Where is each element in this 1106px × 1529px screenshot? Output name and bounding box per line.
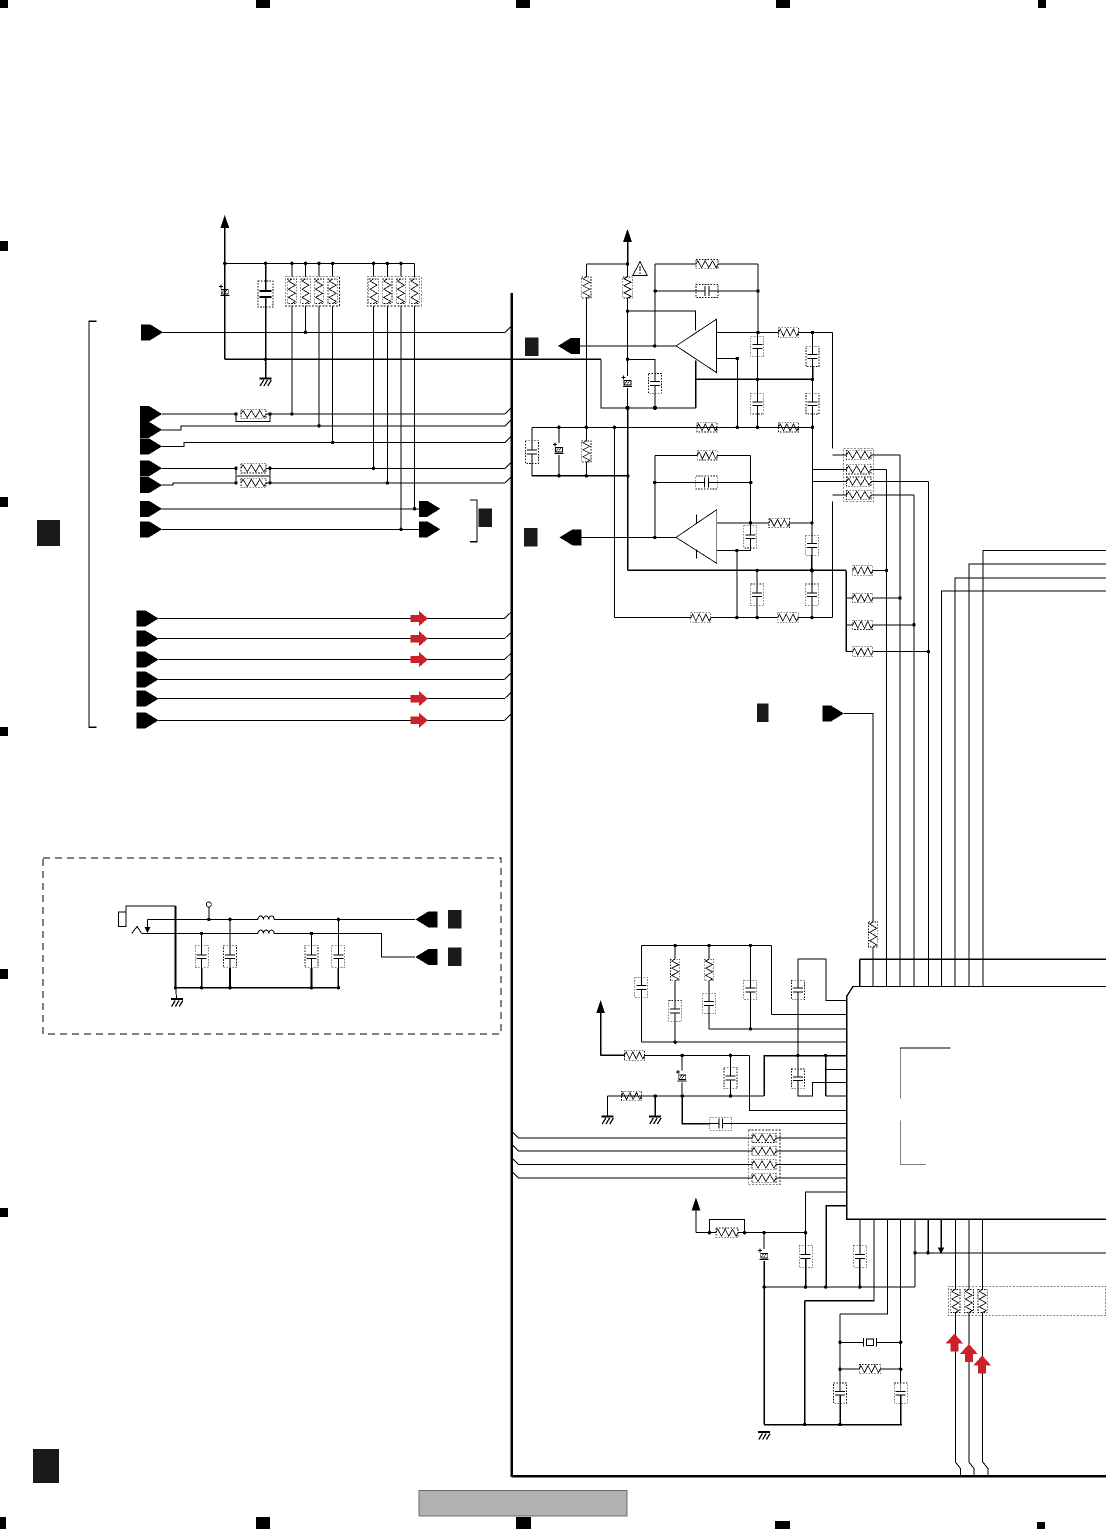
- capacitor C26: [751, 393, 764, 414]
- wire INL1: [159, 618, 505, 620]
- fold mark A: [37, 520, 60, 546]
- power arrow top-left: [220, 215, 229, 228]
- wire INL4: [159, 678, 505, 680]
- resistor RA1-4: [328, 279, 337, 304]
- wire U1 +input: [716, 332, 778, 334]
- wire line y1252: [915, 1252, 1106, 1254]
- op-amp U2: [676, 510, 717, 564]
- capacitor C52: [669, 1001, 682, 1022]
- wire RA3 row4 left: [833, 494, 847, 496]
- wire fb2 res right: [717, 454, 750, 456]
- wire xtal res line: [840, 1368, 859, 1370]
- registration mark top 5: [1038, 0, 1046, 8]
- connector arrow INL3: [137, 652, 159, 668]
- wire col 832 upper: [832, 333, 834, 449]
- bottom border line: [512, 1475, 1106, 1478]
- IC U3 inner bracket b: [900, 1120, 926, 1164]
- capacitor C56: [792, 1069, 805, 1088]
- connector arrow IN1: [140, 406, 162, 422]
- left group bracket: [89, 321, 97, 727]
- wire INL5: [159, 698, 505, 700]
- wire RA3 row1 left: [833, 454, 847, 456]
- registration mark bottom 2: [256, 1517, 270, 1529]
- IC U3 inner bracket a: [900, 1048, 950, 1098]
- output arrow U1: [558, 338, 580, 354]
- wire IN4 a: [162, 467, 236, 469]
- wire R24 right: [799, 332, 833, 334]
- wire C57 leads: [681, 1055, 683, 1070]
- resistor RA4-2: [752, 1146, 776, 1155]
- jack block dashed box: [43, 858, 501, 1034]
- resistor R23 (feedback): [696, 260, 718, 269]
- inductor L1: [258, 916, 274, 919]
- junction: [317, 262, 320, 265]
- polarized capacitor C1 (mini symbol): [219, 285, 230, 296]
- registration mark top 3: [516, 0, 530, 8]
- red signal arrow: [411, 631, 428, 646]
- resistor RA1-3: [314, 279, 323, 304]
- wire RA3 row4 right: [871, 494, 914, 496]
- wire C35 leads: [756, 570, 758, 584]
- resistor R27: [582, 441, 591, 462]
- resistor R43 stub: [846, 624, 853, 626]
- thick supply wire y359: [225, 358, 601, 360]
- output arrow J1a: [415, 911, 437, 927]
- capacitor C74: [332, 946, 345, 968]
- wire array column 3: [318, 263, 320, 276]
- wire jack line2 a: [142, 933, 258, 935]
- thick vertical supply: [627, 408, 629, 571]
- IC U3 body: [847, 987, 1106, 1220]
- thick rail U2: [628, 569, 846, 571]
- resistor R21: [582, 277, 591, 298]
- wire cluster top: [641, 945, 771, 947]
- electrolytic capacitor C2 leads: [265, 263, 267, 291]
- supply rail y1287: [764, 1286, 915, 1288]
- wire C74 leads: [337, 919, 339, 945]
- capacitor C32 (feedback): [696, 476, 718, 489]
- wire pwr col mid: [627, 359, 629, 376]
- wire U1 -input: [716, 358, 737, 360]
- resistor R44: [853, 647, 873, 656]
- connector arrow IN0: [141, 324, 163, 340]
- signal arrow M: [822, 706, 844, 722]
- wire IN2: [162, 419, 512, 430]
- wire column 914: [913, 495, 915, 987]
- wire IN4 b: [266, 467, 505, 469]
- wire C31 leads: [558, 427, 560, 443]
- resistor R62: [716, 1228, 738, 1237]
- resistor R52: [671, 959, 680, 981]
- red signal arrow: [411, 691, 428, 706]
- wire C61 down: [859, 1268, 861, 1288]
- resistor R27 lead: [585, 427, 587, 441]
- wire bus line 3: [512, 1158, 752, 1165]
- resistor R42: [853, 593, 873, 602]
- connector arrow INL6: [137, 712, 159, 728]
- wire C64 stem: [763, 1233, 765, 1249]
- jumper loop under R11: [236, 414, 270, 422]
- switch stem: [208, 907, 210, 919]
- wire C26 lead: [756, 379, 758, 393]
- electrolytic capacitor C2: [258, 281, 273, 307]
- thick stub y1205: [826, 1206, 847, 1287]
- resistor R13: [241, 478, 266, 487]
- registration mark left 3: [0, 727, 8, 736]
- wire U2 fb right: [750, 455, 752, 523]
- IC pin wire 928 thick: [927, 1219, 929, 1253]
- IC pin wire 859: [859, 1219, 861, 1245]
- IC pin elbow 874: [805, 1219, 874, 1301]
- ground b: [649, 1117, 661, 1125]
- IC stub y1028: [709, 1028, 847, 1030]
- wire corner into array2: [414, 263, 416, 277]
- wire -input2 down: [736, 551, 738, 618]
- IC stub y1069: [826, 1069, 847, 1071]
- wire column 968: [968, 1219, 970, 1289]
- wire IN7: [162, 528, 420, 530]
- resistor R31 (feedback): [697, 451, 717, 460]
- wire fb2 cap right: [717, 482, 750, 484]
- ground a: [602, 1117, 614, 1125]
- resistor RA1-1: [287, 279, 296, 304]
- capacitor C33: [744, 526, 757, 548]
- wire corner down 749: [750, 1055, 847, 1110]
- capacitor C65: [799, 1245, 812, 1267]
- capacitor C73: [305, 946, 318, 968]
- capacitor C63: [894, 1383, 907, 1403]
- thick feed ladder: [845, 570, 847, 651]
- wire elbow y359-407: [601, 359, 696, 407]
- IC stub y1042: [641, 1041, 846, 1043]
- resistor RA3-4: [847, 490, 872, 499]
- wire R45 down: [872, 947, 874, 987]
- thick column 825: [825, 1056, 827, 1096]
- wire R62 left: [709, 1232, 716, 1234]
- junction: [372, 262, 375, 265]
- wire C55 top route: [798, 959, 847, 1001]
- jack J1 tip contact: [132, 927, 142, 934]
- wire jack line1 b: [274, 918, 415, 920]
- wire IN1 b: [266, 413, 505, 415]
- wire R21 down: [585, 298, 587, 427]
- thick rail2: [532, 475, 628, 477]
- resistor RA3-1: [847, 450, 872, 459]
- ground bus bottom: [764, 1424, 902, 1426]
- wire column 955: [954, 1219, 956, 1289]
- resistor RA5: [951, 1290, 960, 1313]
- power arrow U1: [623, 229, 632, 242]
- resistor RA4-1: [752, 1133, 776, 1142]
- resistor array RA1 box: [285, 277, 339, 306]
- wire C30 leads: [531, 427, 533, 440]
- wire gnd stem b: [654, 1096, 656, 1116]
- wire fb res right: [718, 263, 758, 265]
- wire array column 1: [291, 263, 293, 276]
- wire array column 8: [414, 263, 416, 276]
- connector arrow IN3: [140, 438, 162, 454]
- resistor array RA2 box: [367, 277, 421, 306]
- wire rail y427: [532, 426, 757, 428]
- pad square A: [478, 509, 492, 528]
- resistor RA5: [978, 1290, 987, 1313]
- wire C71 leads: [201, 934, 203, 946]
- resistor R52 lead: [674, 946, 676, 960]
- polarized capacitor C57 (mini): [676, 1070, 687, 1081]
- wire corner line 4: [942, 591, 1106, 986]
- wire cluster corner: [770, 946, 772, 1015]
- bus line (sheet boundary): [510, 293, 513, 1477]
- wire U2 -input: [717, 550, 737, 552]
- resistor array RA5 box: [948, 1286, 1106, 1315]
- wire bus line 2: [512, 1145, 752, 1152]
- connector arrow IN6: [140, 501, 162, 517]
- wire R32 right: [790, 522, 812, 524]
- wire C62 down: [839, 1403, 841, 1424]
- thick bus y959: [860, 958, 1106, 960]
- IC stub y1123: [732, 1123, 847, 1125]
- crystal X1: [840, 1338, 901, 1347]
- resistor R32: [769, 518, 790, 527]
- wire R22 down: [627, 298, 629, 359]
- capacitor C51: [635, 978, 648, 998]
- warning symbol: [633, 262, 647, 276]
- registration mark left 2: [0, 497, 8, 507]
- thick bus drop: [859, 959, 861, 986]
- wire -input down: [736, 359, 738, 428]
- wire column 886: [886, 469, 888, 986]
- wire R62 right: [738, 1232, 806, 1234]
- capacitor C34: [805, 536, 818, 556]
- wire top rail y263: [225, 262, 415, 264]
- wire corner line 3: [955, 578, 1106, 987]
- wire INL2: [159, 638, 505, 640]
- wire C72 leads: [229, 919, 231, 945]
- wire U1 V- pin thick: [695, 361, 697, 408]
- thick rail U1: [696, 378, 813, 380]
- wire y617 b: [711, 617, 778, 619]
- red signal arrow: [411, 611, 428, 626]
- wire C34 leads: [811, 523, 813, 536]
- wire C24 leads: [756, 333, 758, 337]
- resistor R41: [853, 566, 873, 575]
- U2 pin ticks: [696, 515, 698, 524]
- wire C51 leads: [640, 946, 642, 978]
- wire P2 corner: [601, 1054, 625, 1056]
- resistor R12: [241, 464, 266, 473]
- wire IN5 a: [162, 483, 236, 485]
- capacitor C55: [792, 980, 805, 999]
- junction line2: [310, 932, 313, 935]
- wire R41 right: [873, 569, 887, 571]
- wire fb res left: [655, 263, 696, 265]
- resistor R42 stub: [846, 597, 853, 599]
- connector arrow INL4: [137, 671, 159, 687]
- resistor RA4-3: [752, 1160, 776, 1169]
- wire C36 leads: [811, 570, 813, 584]
- red signal arrow: [411, 713, 428, 728]
- resistor RA2-4: [410, 279, 419, 304]
- wire v+ rail: [586, 263, 627, 265]
- resistor R43: [853, 620, 873, 629]
- resistor R55: [622, 1091, 642, 1100]
- resistor RA4-4: [752, 1173, 776, 1182]
- wire v 614: [613, 427, 615, 617]
- wire corner line 2: [969, 564, 1106, 986]
- registration mark bottom 1: [0, 1517, 6, 1529]
- wire gnd stem a: [607, 1096, 609, 1116]
- polarized capacitor C31 (mini): [553, 443, 564, 454]
- power arrow P3: [692, 1198, 701, 1211]
- resistor RA2-3: [396, 279, 405, 304]
- wire INL3: [159, 659, 505, 661]
- registration mark left 5: [0, 1208, 8, 1217]
- op-amp U1: [676, 319, 716, 372]
- jack J1 sleeve wire: [126, 906, 175, 912]
- wire col 832 lower: [832, 502, 834, 618]
- registration mark top-left: [0, 0, 8, 8]
- wire U1 fb right: [757, 264, 759, 332]
- wire bus line 4: [512, 1172, 752, 1179]
- output arrow OUT6: [419, 501, 441, 517]
- power arrow P2: [596, 1000, 605, 1013]
- wire RA3 row2 right: [871, 468, 887, 470]
- wire R27 down: [585, 462, 587, 476]
- junction: [290, 262, 293, 265]
- junctions R13: [234, 481, 237, 484]
- pad square U2: [524, 528, 538, 547]
- polarized capacitor C64 (mini): [758, 1249, 769, 1260]
- pad square J1a: [448, 910, 461, 929]
- jumper loop under R12: [236, 468, 270, 475]
- resistor R45: [869, 922, 878, 947]
- junction: [264, 262, 267, 265]
- capacitor C72: [224, 946, 237, 968]
- jumper loop over R62: [709, 1219, 744, 1232]
- switch actuator arrow: [147, 919, 149, 929]
- resistor array RA4 box: [748, 1130, 780, 1185]
- registration mark bottom 3: [516, 1517, 531, 1529]
- wire crystal left col: [839, 1314, 841, 1383]
- registration mark bottom 4: [775, 1521, 790, 1529]
- wire INL6: [159, 719, 505, 721]
- wire C52 leads: [674, 981, 676, 1001]
- connector arrow INL1: [137, 611, 159, 627]
- switch contact circle: [206, 902, 211, 907]
- wire stub y1192: [806, 1192, 847, 1233]
- wire bus line 1: [512, 1131, 752, 1138]
- junctions R11: [234, 412, 237, 415]
- resistor R26: [779, 423, 799, 432]
- registration mark top 4: [776, 0, 790, 8]
- wire column 928: [928, 482, 930, 987]
- wire U2 +input: [717, 522, 769, 524]
- wire C54 leads: [749, 946, 751, 981]
- wire C55 bottom: [797, 1000, 799, 1069]
- connector arrow IN5: [140, 477, 162, 493]
- registration mark bottom 5: [1037, 1522, 1045, 1529]
- pad square U1: [525, 337, 539, 356]
- capacitor C59: [710, 1117, 732, 1130]
- resistor R22 lead: [627, 264, 629, 277]
- wire U2 output: [580, 536, 676, 538]
- IC pin wire 941 thick: [940, 1219, 942, 1250]
- wire R42 right: [873, 597, 900, 599]
- thick jack gnd wire: [175, 906, 177, 988]
- wire U1 V+ pin: [628, 311, 696, 330]
- junction: [304, 262, 307, 265]
- junction: [331, 262, 334, 265]
- connector arrow IN7: [140, 521, 162, 537]
- wire array column 7: [400, 263, 402, 276]
- wire gnd jack stem: [175, 988, 178, 999]
- wire R54 right: [645, 1054, 750, 1056]
- wire jack line2 b: [274, 934, 415, 958]
- wire C56 step: [798, 1082, 847, 1095]
- ground jack: [171, 999, 183, 1007]
- wire U1 feedback left: [654, 264, 656, 346]
- resistor RA2-2: [383, 279, 392, 304]
- resistor RA3-3: [847, 477, 872, 486]
- wire U1 output: [579, 345, 677, 347]
- wire line y617: [614, 617, 691, 619]
- capacitor C23 (feedback): [696, 285, 718, 298]
- resistor R53: [704, 959, 713, 981]
- resistor R24: [779, 328, 799, 337]
- wire RA3 row2 left: [812, 468, 847, 470]
- wire C65 leads: [805, 1233, 807, 1246]
- capacitor C62: [834, 1383, 847, 1403]
- wire U2 feedback left: [654, 455, 656, 537]
- red arrow up 2: [960, 1344, 978, 1362]
- wire RA3 row3 right: [871, 481, 929, 483]
- output arrow OUT7: [419, 521, 441, 537]
- wire C29 leads: [654, 359, 656, 373]
- wire C58 leads: [730, 1055, 732, 1067]
- resistor R22: [623, 277, 632, 298]
- wire fb cap right: [718, 290, 758, 292]
- junction: [399, 262, 402, 265]
- wire C53 leads: [708, 981, 710, 994]
- wire RA3 row3 left: [812, 481, 847, 483]
- resistor R54: [625, 1051, 645, 1060]
- resistor R25: [697, 423, 717, 432]
- connector arrow IN4: [140, 460, 162, 476]
- ground (C2): [260, 379, 272, 387]
- registration mark left 4: [0, 969, 8, 979]
- wire IN6: [162, 508, 420, 510]
- wire RA3 row1 right: [871, 454, 900, 456]
- wire v 812 mid: [812, 427, 814, 523]
- resistor R61: [859, 1365, 880, 1374]
- jumper loop over R13: [236, 476, 270, 483]
- red signal arrow: [411, 652, 428, 667]
- wire column 900: [899, 455, 901, 987]
- IC stub y1095: [826, 1095, 847, 1097]
- wire jack line1 a: [148, 918, 259, 920]
- ground bottom: [758, 1432, 770, 1440]
- fold mark B: [33, 1449, 59, 1483]
- junction: [223, 262, 226, 265]
- wire IN1 a: [162, 413, 236, 415]
- capacitor C61: [853, 1245, 866, 1267]
- junctions R12: [234, 467, 237, 470]
- thick gnd drop 804: [804, 1301, 806, 1425]
- IC pin elbow 887: [840, 1219, 888, 1314]
- thick cap net C59: [682, 1096, 710, 1124]
- capacitor C25: [806, 346, 819, 366]
- wire y617 c: [798, 617, 832, 619]
